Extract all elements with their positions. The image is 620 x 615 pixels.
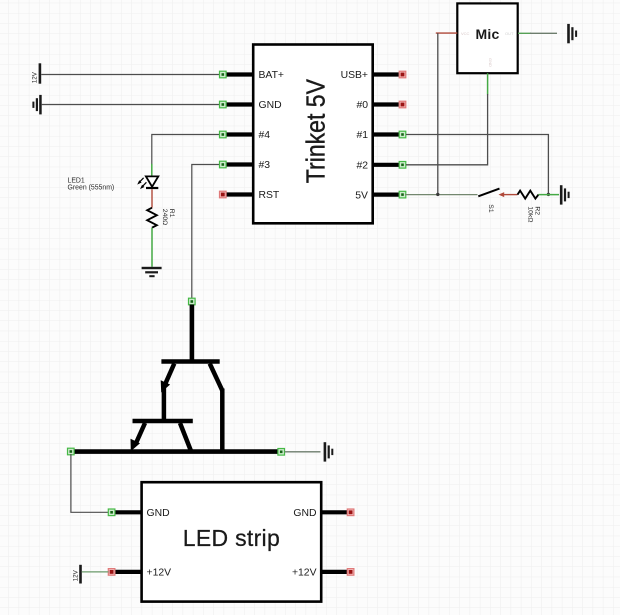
pin 5V	[355, 190, 406, 201]
power +12V symbol bottom-left	[72, 565, 81, 584]
transistor Q2 base bar	[133, 419, 193, 424]
svg-text:BAT+: BAT+	[259, 70, 285, 81]
ground symbol left (GND wire)	[32, 95, 41, 115]
pin USB+ (unconnected, red)	[341, 70, 406, 81]
LED strip pin GND right (red)	[293, 508, 353, 519]
wire ground to GND	[42, 104, 220, 106]
LED strip pin +12V right (red)	[292, 568, 354, 579]
pin #2	[356, 161, 405, 172]
LED D1 lead top (green)	[151, 164, 153, 176]
pin BAT+	[220, 70, 285, 81]
svg-text:Green (555nm): Green (555nm)	[68, 185, 115, 192]
wire #3 to Q1 base	[192, 165, 222, 299]
ground symbol right of Mic	[567, 24, 577, 43]
svg-text:12V: 12V	[31, 71, 38, 83]
wire #4 to LED1	[152, 135, 222, 165]
svg-text:#1: #1	[356, 130, 368, 141]
wire #1 to R2 right node	[406, 135, 548, 195]
junction dot Mic VCC on 5V net	[436, 193, 439, 196]
svg-text:+12V: +12V	[292, 568, 317, 579]
svg-text:#3: #3	[259, 160, 271, 171]
junction dot at R2 right	[547, 193, 550, 196]
wire 12V to +12V pin	[82, 571, 109, 573]
pin #0 (unconnected, red)	[356, 100, 405, 111]
svg-text:12V: 12V	[72, 569, 79, 581]
transistor Q1 collector	[210, 364, 223, 452]
transistor Q1 emitter (arrow)	[161, 364, 175, 393]
svg-text:10kΩ: 10kΩ	[527, 206, 534, 222]
label LED1 Green (555nm)	[68, 177, 115, 191]
transistor Q2 collector	[180, 423, 191, 451]
svg-text:GND: GND	[147, 508, 170, 519]
wire R2 to ground (green)	[539, 194, 560, 196]
svg-text:LED strip: LED strip	[183, 525, 280, 551]
LED strip pin GND left	[108, 508, 169, 519]
svg-text:USB+: USB+	[341, 70, 368, 81]
wire R1 to ground (green)	[151, 228, 153, 267]
label R2 10k ohm	[527, 206, 541, 222]
switch S1	[478, 189, 499, 213]
ground symbol right of R2	[560, 185, 570, 204]
svg-text:OUT: OUT	[505, 31, 514, 36]
svg-text:+12V: +12V	[147, 568, 172, 579]
LED D1 symbol	[137, 176, 158, 189]
wire Q1 emitter to Q2 base	[162, 388, 167, 421]
transistor Q1 base pin square	[189, 298, 196, 305]
svg-text:VCC: VCC	[461, 31, 470, 36]
svg-text:240Ω: 240Ω	[161, 209, 168, 225]
wire Mic VCC down to 5V net	[437, 33, 439, 194]
transistor Q2 emitter (arrow)	[131, 423, 146, 451]
pin #1	[356, 130, 405, 141]
pin RST (unconnected, red)	[220, 190, 280, 201]
pin GND	[220, 100, 282, 111]
resistor R2	[518, 191, 539, 199]
wire Mic GND lead (green) down	[487, 73, 489, 94]
svg-text:#0: #0	[356, 100, 368, 111]
svg-text:RST: RST	[259, 190, 280, 201]
wire LED cathode to R1 (red)	[151, 189, 153, 208]
transistor Q1 base lead	[190, 305, 195, 362]
LED strip module	[142, 482, 322, 601]
wire 5V to switch	[405, 194, 478, 196]
transistor Q1 base bar	[161, 359, 219, 364]
wire rail to ground	[285, 451, 321, 453]
power +12V symbol top-left	[31, 63, 41, 83]
svg-text:Mic: Mic	[476, 26, 500, 42]
ground symbol below R1	[142, 267, 162, 277]
emitter/collector rail	[72, 449, 279, 454]
svg-text:#4: #4	[259, 130, 271, 141]
svg-text:LED1: LED1	[68, 177, 85, 184]
wire switch to R2 (red, arrow)	[499, 192, 518, 197]
svg-text:5V: 5V	[355, 190, 368, 201]
wire Mic VCC (red)	[436, 32, 458, 34]
IC U1 Trinket 5V	[253, 45, 373, 224]
svg-text:S1: S1	[487, 204, 494, 213]
wire rail to LED strip GND	[71, 454, 109, 512]
pin #4	[220, 130, 271, 141]
wire Mic OUT to ground	[518, 32, 531, 34]
pin #3	[220, 160, 271, 171]
label R1 240 ohm	[161, 209, 175, 225]
ground symbol right of rail	[324, 442, 334, 461]
svg-text:GND: GND	[488, 58, 493, 67]
svg-text:GND: GND	[259, 100, 282, 111]
Mic module	[457, 3, 517, 73]
rail left pin square	[68, 448, 75, 455]
LED strip pin +12V left (red)	[108, 568, 171, 579]
svg-text:GND: GND	[293, 508, 316, 519]
wire Mic GND to #2	[406, 94, 488, 165]
wire 12V to BAT+	[41, 74, 220, 76]
resistor R1	[147, 208, 157, 228]
rail right pin square	[278, 449, 285, 456]
svg-text:Trinket 5V: Trinket 5V	[302, 78, 331, 183]
svg-text:#2: #2	[356, 161, 368, 172]
